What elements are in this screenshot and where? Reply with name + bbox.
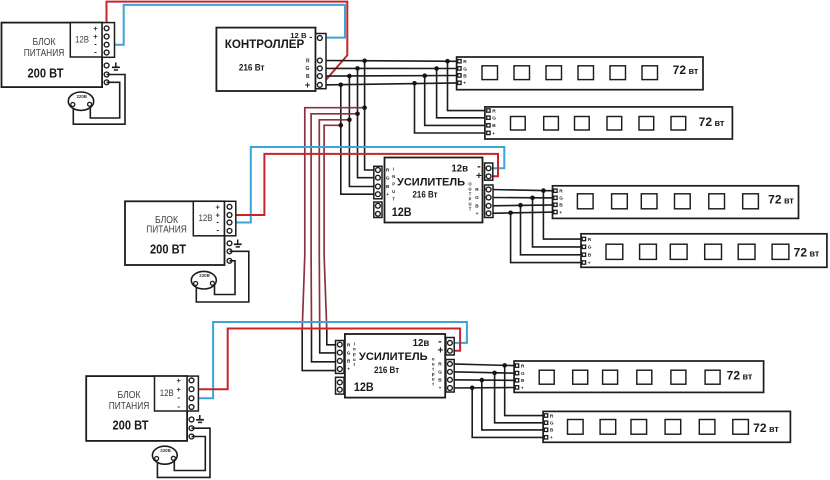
LED strip 4: 72 W RGB strip body xyxy=(581,234,827,267)
svg-text:200 ВТ: 200 ВТ xyxy=(150,242,186,257)
mains input terminals of PSU2 xyxy=(227,241,232,263)
svg-text:B: B xyxy=(492,123,496,129)
svg-text:-: - xyxy=(309,32,312,42)
svg-text:216 Вт: 216 Вт xyxy=(413,189,439,199)
wire 220V loop outer of PSU3 xyxy=(157,428,210,477)
wire R (dark red) to amplifier U2 xyxy=(302,108,364,330)
power supply PSU3: body БЛОК ПИТАНИЯ xyxy=(86,376,187,441)
svg-text:R: R xyxy=(475,187,479,193)
svg-text:+: + xyxy=(476,212,479,217)
input pads R G B + of LED strip 4 xyxy=(582,237,592,267)
wire + drop to strip 4 xyxy=(511,213,583,263)
svg-text:R: R xyxy=(521,364,525,370)
input pads R G B + of LED strip 5 xyxy=(515,364,525,392)
12V output terminal block of PSU3 (pins + + - -) xyxy=(155,376,199,411)
wire 220V loop outer of PSU2 xyxy=(196,251,249,302)
svg-text:G: G xyxy=(438,370,442,376)
svg-text:G: G xyxy=(386,175,390,181)
12V output terminal block of PSU1 (pins + + - -) xyxy=(70,23,114,58)
220V plug of PSU3 xyxy=(152,446,177,464)
svg-text:72 вт: 72 вт xyxy=(768,192,794,206)
svg-text:R: R xyxy=(588,237,592,243)
svg-text:72 вт: 72 вт xyxy=(673,63,699,77)
LED chips of strip 5 xyxy=(539,370,720,384)
input terminal block R G B + of amplifier U2 xyxy=(374,166,396,201)
svg-text:+: + xyxy=(305,80,311,91)
wire R: amplifier U2 to strip 5 xyxy=(452,364,516,366)
svg-text:12В: 12В xyxy=(75,34,89,45)
value label 72 вт of strip 1 xyxy=(673,63,699,77)
svg-text:R: R xyxy=(347,342,351,348)
svg-text:72 вт: 72 вт xyxy=(794,246,820,260)
value label 200 ВТ of PSU1 xyxy=(28,65,64,80)
wire +12V red: PSU1 to controller xyxy=(107,2,348,85)
svg-text:+: + xyxy=(559,211,562,216)
wire B drop to strip 6 xyxy=(482,380,545,430)
svg-text:R: R xyxy=(306,58,310,64)
LED strip 2: 72 W RGB strip body xyxy=(485,107,733,139)
input pads R G B + of LED strip 3 xyxy=(554,189,564,216)
svg-text:B: B xyxy=(521,378,525,384)
svg-text:+: + xyxy=(463,82,466,87)
LED strip 6: 72 W RGB strip body xyxy=(543,411,790,442)
svg-text:R: R xyxy=(492,108,496,114)
wire 220V loop inner of PSU2 xyxy=(215,261,236,295)
node G junction dots xyxy=(355,66,360,71)
wire G drop to strip 4 xyxy=(533,198,583,247)
220V plug of PSU1 xyxy=(68,92,93,110)
wire R drop to strip 2 xyxy=(448,61,488,110)
svg-text:U: U xyxy=(392,189,395,194)
svg-text:12В: 12В xyxy=(392,206,412,219)
wire R drop to amplifier U1 input xyxy=(365,61,377,170)
controller U1: body КОНТРОЛЛЕР xyxy=(216,28,315,91)
svg-text:+: + xyxy=(550,436,553,441)
svg-text:-: - xyxy=(177,393,180,402)
svg-text:200 ВТ: 200 ВТ xyxy=(113,418,149,433)
svg-text:12В: 12В xyxy=(160,388,174,399)
wire 220V loop outer of PSU1 xyxy=(73,75,125,125)
power supply PSU1: body БЛОК ПИТАНИЯ xyxy=(2,23,103,88)
12V power terminals - + of amplifier U2 xyxy=(485,163,493,180)
12V power terminals - + of amplifier U3 xyxy=(446,338,454,356)
svg-text:12В: 12В xyxy=(199,213,213,224)
LED chips of strip 6 xyxy=(568,420,749,435)
wire +12V red: PSU2 to amplifier U1 xyxy=(232,154,498,215)
12V output terminal block of PSU2 (pins + + - -) xyxy=(193,201,236,236)
svg-text:216 Вт: 216 Вт xyxy=(374,365,400,375)
svg-text:72 вт: 72 вт xyxy=(699,115,725,129)
output terminal block R G B + of amplifier U3 xyxy=(432,357,454,392)
wire B drop to strip 4 xyxy=(521,205,583,255)
wire B: amplifier U1 to strip 3 xyxy=(491,204,555,207)
value label 72 вт of strip 6 xyxy=(753,421,779,435)
svg-text:220В: 220В xyxy=(160,448,171,453)
wire + drop to amplifier U1 input xyxy=(341,85,377,194)
svg-text:R: R xyxy=(550,413,554,419)
220V plug of PSU2 xyxy=(191,271,216,289)
wire G: amplifier U1 to strip 3 xyxy=(491,197,555,199)
input pads R G B + of LED strip 1 xyxy=(458,59,468,87)
LED chips of strip 4 xyxy=(606,244,789,259)
LED strip 5: 72 W RGB strip body xyxy=(514,361,764,392)
LED chips of strip 1 xyxy=(482,66,658,80)
wire G drop to strip 6 xyxy=(495,373,545,423)
wire R drop to strip 4 xyxy=(543,191,583,240)
input terminal block R G B + of amplifier U3 xyxy=(336,341,356,374)
svg-text:+: + xyxy=(386,193,389,198)
svg-text:G: G xyxy=(550,421,554,427)
value label 200 ВТ of PSU3 xyxy=(113,418,149,433)
value label 72 вт of strip 3 xyxy=(768,192,794,206)
svg-text:+: + xyxy=(521,386,524,391)
svg-text:ПИТАНИЯ: ПИТАНИЯ xyxy=(146,223,187,235)
mains input terminals of PSU3 xyxy=(189,417,194,439)
ground symbol of PSU1 xyxy=(112,63,120,71)
node junctions amplifier U1 outputs xyxy=(541,188,546,193)
svg-text:G: G xyxy=(588,245,592,251)
value label 200 ВТ of PSU2 xyxy=(150,242,186,257)
wire + (dark red) to amplifier U2 xyxy=(324,125,341,330)
svg-text:+: + xyxy=(177,376,182,385)
svg-text:B: B xyxy=(588,253,592,259)
svg-text:R: R xyxy=(559,189,563,195)
LED strip 1: 72 W RGB strip body xyxy=(457,57,703,90)
wire -12V blue: PSU3 to amplifier U2 xyxy=(194,322,467,398)
svg-text:200 ВТ: 200 ВТ xyxy=(28,65,64,80)
svg-text:12 В: 12 В xyxy=(290,31,306,40)
svg-text:+: + xyxy=(439,387,442,392)
svg-text:B: B xyxy=(463,73,467,79)
wire -12V blue: PSU1 to controller xyxy=(107,5,345,45)
svg-text:R: R xyxy=(438,362,442,368)
wire B (dark red) to amplifier U2 xyxy=(319,120,349,330)
svg-text:УСИЛИТЕЛЬ: УСИЛИТЕЛЬ xyxy=(359,351,428,363)
svg-text:B: B xyxy=(306,74,310,80)
value label 72 вт of strip 4 xyxy=(794,246,820,260)
svg-text:N: N xyxy=(392,174,395,179)
amplifier U2: body УСИЛИТЕЛЬ xyxy=(385,158,483,223)
svg-text:+: + xyxy=(476,171,482,182)
svg-text:G: G xyxy=(559,196,563,202)
wire +: amplifier U1 to strip 3 xyxy=(491,212,555,213)
svg-text:B: B xyxy=(475,204,479,210)
svg-text:P: P xyxy=(392,181,395,186)
svg-text:12в: 12в xyxy=(413,337,430,349)
svg-text:B: B xyxy=(386,184,390,190)
value label 72 вт of strip 2 xyxy=(699,115,725,129)
wire G drop to strip 2 xyxy=(437,69,488,118)
wire 220V loop inner of PSU3 xyxy=(174,437,205,471)
power supply PSU2: body БЛОК ПИТАНИЯ xyxy=(125,201,225,265)
wire B drop to amplifier U1 input xyxy=(349,76,376,187)
svg-text:ПИТАНИЯ: ПИТАНИЯ xyxy=(109,400,150,412)
wire 220V loop inner of PSU1 xyxy=(90,82,119,118)
spare input terminals of amplifier U2 xyxy=(374,202,382,218)
svg-text:72 вт: 72 вт xyxy=(753,421,779,435)
wire +12V red: PSU3 to amplifier U2 xyxy=(194,329,460,390)
svg-text:12в: 12в xyxy=(451,162,468,174)
LED strip 3: 72 W RGB strip body xyxy=(553,186,799,219)
wire G: controller to strip 1 xyxy=(322,67,458,69)
wire B drop to strip 2 xyxy=(425,76,488,126)
svg-text:G: G xyxy=(492,116,496,122)
LED chips of strip 2 xyxy=(511,117,686,131)
wire + drop to strip 2 xyxy=(415,83,488,133)
svg-text:R: R xyxy=(386,168,390,174)
wire +: amplifier U2 to strip 5 xyxy=(452,387,516,390)
spare input terminals of amplifier U3 xyxy=(336,377,345,394)
svg-text:T: T xyxy=(469,207,472,212)
svg-text:216 Вт: 216 Вт xyxy=(239,63,265,73)
svg-text:T: T xyxy=(392,196,395,201)
svg-text:I: I xyxy=(393,166,394,171)
svg-text:12В: 12В xyxy=(354,381,374,394)
terminal strip of controller (12V- , R, G, B, + pins) xyxy=(316,34,326,89)
LED chips of strip 3 xyxy=(577,194,758,209)
svg-text:220В: 220В xyxy=(76,94,87,99)
svg-text:B: B xyxy=(559,203,563,209)
wire -12V blue: PSU2 to amplifier U1 xyxy=(232,147,505,223)
ground symbol of PSU3 xyxy=(196,415,204,422)
output terminal block R G B + of amplifier U2 xyxy=(468,182,493,218)
pin label 12 В - of controller xyxy=(290,31,312,42)
wire G drop to amplifier U1 input xyxy=(358,68,377,177)
input pads R G B + of LED strip 2 xyxy=(487,108,497,136)
node B junction dots xyxy=(347,74,352,79)
svg-text:G: G xyxy=(305,66,309,72)
svg-text:72 вт: 72 вт xyxy=(727,368,753,382)
wire G: amplifier U2 to strip 5 xyxy=(452,372,516,373)
svg-text:B: B xyxy=(347,359,351,365)
svg-text:R: R xyxy=(463,59,467,65)
pin labels R G B + of controller xyxy=(305,58,311,91)
wire G (dark red) to amplifier U2 xyxy=(311,114,357,330)
wire +: controller to strip 1 xyxy=(322,83,458,85)
svg-text:УСИЛИТЕЛЬ: УСИЛИТЕЛЬ xyxy=(397,177,465,189)
wire B: controller to strip 1 xyxy=(322,75,458,78)
node + junction dots xyxy=(339,83,344,88)
svg-text:-: - xyxy=(177,402,180,411)
svg-text:G: G xyxy=(475,195,479,201)
svg-text:B: B xyxy=(550,428,554,434)
svg-text:-: - xyxy=(94,47,97,56)
svg-text:+: + xyxy=(588,261,591,266)
value label 216 Вт of controller xyxy=(239,63,265,73)
wire B: amplifier U2 to strip 5 xyxy=(452,379,516,382)
node R junction dots xyxy=(362,59,367,64)
svg-text:+: + xyxy=(437,345,443,356)
mains input terminals of PSU1 xyxy=(104,63,109,85)
amplifier U3: body УСИЛИТЕЛЬ xyxy=(345,334,445,398)
svg-text:220В: 220В xyxy=(199,273,210,278)
svg-text:+: + xyxy=(347,368,350,373)
svg-text:B: B xyxy=(438,378,442,384)
wire R drop to strip 6 xyxy=(505,365,545,415)
svg-text:G: G xyxy=(463,66,467,72)
svg-text:ПИТАНИЯ: ПИТАНИЯ xyxy=(24,47,65,59)
wire R: controller to strip 1 xyxy=(322,60,458,63)
wire + drop to strip 6 xyxy=(472,388,545,438)
wire R: amplifier U1 to strip 3 xyxy=(491,190,555,191)
svg-text:G: G xyxy=(521,371,525,377)
ground symbol of PSU2 xyxy=(234,240,242,247)
value label 72 вт of strip 5 xyxy=(727,368,753,382)
svg-text:G: G xyxy=(347,350,351,356)
svg-text:-: - xyxy=(216,226,219,235)
input pads R G B + of LED strip 6 xyxy=(544,413,554,441)
node junctions amplifier U2 outputs xyxy=(502,363,507,368)
svg-text:+: + xyxy=(492,132,495,137)
